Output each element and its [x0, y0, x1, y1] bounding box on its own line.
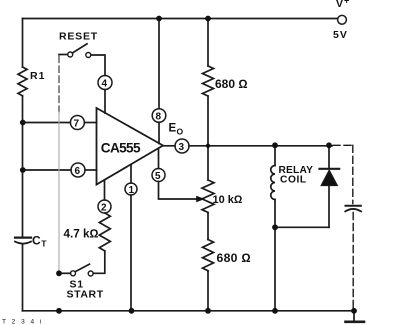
svg-text:680 Ω: 680 Ω [215, 77, 248, 91]
svg-text:START: START [67, 289, 104, 301]
ground [346, 311, 365, 322]
svg-text:CA555: CA555 [101, 141, 141, 156]
svg-text:C: C [32, 233, 41, 247]
node bottom relay [272, 308, 278, 314]
potentiometer 10k [202, 180, 214, 213]
wire pin7 [23, 122, 71, 124]
svg-text:8: 8 [156, 112, 162, 123]
node top pin8 [156, 16, 162, 22]
switch S1 START [61, 264, 93, 276]
pin 3 [175, 139, 189, 153]
wire relay branch [274, 145, 276, 165]
svg-text:680 Ω: 680 Ω [217, 251, 252, 265]
pin 6 [71, 163, 85, 177]
wire left rail lower [22, 244, 24, 311]
pin 5 [152, 169, 165, 182]
wire pin6 [23, 169, 71, 171]
wire 680 to pot [207, 96, 209, 180]
pin 2 [98, 200, 111, 213]
resistor 4.7k [99, 213, 110, 251]
resistor R1 [18, 67, 27, 96]
wire pin5 [158, 149, 160, 169]
wire left rail upper [22, 19, 24, 68]
node bottom start [56, 308, 62, 314]
node top 680 [205, 16, 211, 22]
svg-text:3: 3 [179, 142, 185, 153]
svg-text:7: 7 [74, 119, 80, 130]
wiper arrow head [196, 196, 205, 203]
svg-text:COIL: COIL [280, 174, 307, 185]
pin 8 [152, 109, 166, 123]
pin 4 [98, 76, 112, 90]
wire 680 branch upper [207, 19, 209, 67]
capacitor external [345, 206, 361, 212]
wire pin3 output [163, 145, 175, 147]
wire 680 branch lower [207, 271, 209, 311]
svg-text:1: 1 [129, 185, 135, 196]
wire top rail V+ [23, 18, 338, 20]
svg-text:E: E [169, 123, 177, 135]
wire reset-start link [58, 56, 60, 112]
wire relay bottom link [275, 226, 329, 228]
svg-text:6: 6 [75, 166, 81, 177]
node output pot [206, 144, 210, 148]
resistor 680 bottom [203, 240, 214, 272]
svg-text:RESET: RESET [59, 31, 98, 43]
svg-text:10 kΩ: 10 kΩ [213, 194, 243, 206]
wire output rail [189, 145, 332, 147]
wire pin1 [130, 165, 132, 184]
node output diode [326, 142, 332, 148]
svg-text:T 2 3 4 i: T 2 3 4 i [2, 319, 43, 325]
svg-text:V: V [336, 0, 343, 10]
wiper arrow wire [197, 198, 199, 200]
svg-text:+: + [344, 0, 349, 6]
wire bottom rail [23, 310, 355, 312]
switch RESET [59, 44, 105, 76]
node dots [20, 16, 357, 314]
node output relay [272, 142, 278, 148]
node left pin7 [20, 120, 26, 126]
wire pin2 [104, 180, 106, 200]
svg-text:5V: 5V [333, 29, 348, 41]
svg-text:4: 4 [102, 79, 108, 90]
node bottom ground [351, 308, 357, 314]
node bottom pin1 [129, 308, 135, 314]
svg-text:2: 2 [101, 203, 107, 214]
node relay bottom [272, 224, 278, 230]
wire pot to 680 bottom [207, 213, 209, 240]
resistor 680 top [203, 66, 214, 96]
pin 1 [125, 183, 137, 195]
wire dashed external load [333, 145, 353, 308]
inductor relay coil [271, 166, 275, 200]
svg-text:5: 5 [155, 171, 161, 182]
diode D1 [320, 145, 340, 227]
op-amp U1 CA555 triangle [97, 108, 164, 185]
svg-text:T: T [41, 238, 47, 248]
svg-text:R1: R1 [30, 70, 45, 82]
wire left rail middle [22, 96, 24, 237]
capacitor CT [15, 238, 31, 244]
node bottom 680 [205, 308, 211, 314]
pin 7 [70, 116, 84, 130]
terminal V+ 5V [338, 15, 347, 24]
node start switch [56, 270, 62, 276]
svg-text:4.7 kΩ: 4.7 kΩ [64, 228, 99, 241]
wire pin8 [158, 19, 160, 109]
svg-text:O: O [177, 126, 184, 136]
node left pin6 [20, 167, 26, 173]
